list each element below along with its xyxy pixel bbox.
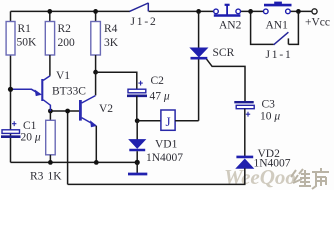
- svg-text:J: J: [166, 114, 171, 129]
- wire top rail left segment: [11, 10, 131, 12]
- wire SCR cathode down to J node: [198, 59, 200, 120]
- pushbutton AN1: [264, 3, 292, 14]
- terminal +Vcc circle: [312, 9, 317, 14]
- unijunction transistor V1: [12, 76, 50, 111]
- node bottom rail dot at V2 emitter: [94, 160, 99, 165]
- node R4 bottom junction dot: [93, 70, 98, 75]
- wire lower rail riser to base node: [67, 111, 69, 184]
- resistor R3: [46, 111, 56, 162]
- node bottom rail dot at VD1: [135, 160, 140, 165]
- wire J1-1 right vertical: [288, 11, 298, 44]
- node top rail dot at J1-1 left: [248, 9, 253, 14]
- node top rail dot at SCR: [196, 9, 201, 14]
- wire SCR anode lead: [198, 11, 200, 48]
- svg-text:50K: 50K: [17, 37, 38, 49]
- wire R2 bottom lead to V1 B2: [49, 55, 51, 76]
- svg-text:10 μ: 10 μ: [260, 111, 280, 123]
- resistor R2: [45, 22, 54, 56]
- ground symbol: [128, 162, 147, 174]
- svg-text:20 μ: 20 μ: [21, 132, 41, 144]
- svg-text:VD1: VD1: [155, 139, 178, 151]
- switch J1-1 right post: [287, 38, 289, 44]
- diode VD2: [236, 157, 253, 168]
- watermark WeeQoo: [224, 165, 296, 189]
- wire R4 bottom lead: [95, 55, 97, 72]
- svg-text:C2: C2: [151, 75, 165, 87]
- svg-text:1N4007: 1N4007: [146, 152, 183, 164]
- switch J1-2 blade: [130, 3, 149, 12]
- wire R2 top lead: [49, 11, 51, 21]
- node bottom rail dot at R3: [48, 160, 53, 165]
- node relay node dot: [135, 118, 140, 123]
- switch J1-1 blade: [274, 32, 289, 45]
- svg-text:J1-1: J1-1: [266, 49, 293, 61]
- svg-text:R3: R3: [30, 171, 44, 183]
- wire bottom rail: [11, 161, 138, 163]
- svg-text:SCR: SCR: [213, 47, 235, 59]
- svg-text:AN1: AN1: [266, 20, 289, 32]
- wire C2 bottom lead: [136, 96, 138, 121]
- wire top rail right segment: [291, 10, 312, 12]
- wire J1-1 left vertical: [251, 11, 274, 44]
- wire top rail between AN2 and AN1: [241, 10, 264, 12]
- node top rail dot at R4: [93, 9, 98, 14]
- diode VD1: [129, 121, 145, 163]
- wire R4 top lead: [95, 11, 97, 21]
- wire R4 node to C2: [96, 72, 137, 89]
- capacitor C1: [1, 121, 21, 136]
- svg-text:R1: R1: [18, 23, 32, 35]
- svg-text:R2: R2: [58, 23, 72, 35]
- wire top rail middle segment: [149, 10, 214, 12]
- svg-text:+Vcc: +Vcc: [305, 17, 330, 29]
- node top rail dot at R2: [47, 9, 52, 14]
- wire relay node to J box: [137, 120, 161, 122]
- wire base node horizontal: [50, 110, 79, 112]
- svg-text:R4: R4: [104, 23, 118, 35]
- svg-text:V1: V1: [56, 70, 70, 82]
- node left rail dot at V1 emitter: [8, 87, 13, 92]
- resistor R4: [91, 22, 101, 56]
- wire V2 collector vertical: [95, 72, 97, 95]
- capacitor C2: [127, 81, 147, 96]
- svg-text:J1-2: J1-2: [131, 16, 158, 28]
- svg-text:V2: V2: [99, 103, 113, 115]
- svg-text:47 μ: 47 μ: [150, 91, 170, 103]
- node base wire dot right: [65, 109, 70, 114]
- capacitor C3: [234, 102, 254, 116]
- wire SCR gate: [207, 59, 245, 101]
- svg-text:C3: C3: [262, 99, 276, 111]
- wire J box to SCR cathode: [175, 120, 199, 122]
- svg-text:BT33C: BT33C: [52, 86, 86, 98]
- svg-text:C1: C1: [23, 120, 37, 132]
- resistor R1: [6, 22, 15, 56]
- wire C3 bottom lead: [244, 109, 246, 157]
- svg-text:200: 200: [58, 37, 76, 49]
- node base wire dot left: [48, 109, 53, 114]
- wire V2 emitter to bottom rail: [95, 126, 97, 163]
- svg-text:3K: 3K: [104, 37, 119, 49]
- transistor V2: [80, 96, 96, 127]
- watermark CJK 维库: [291, 168, 329, 189]
- svg-text:AN2: AN2: [219, 20, 242, 32]
- relay coil J box: [161, 110, 175, 130]
- node top rail dot at J1-1 right: [296, 9, 301, 14]
- svg-text:1N4007: 1N4007: [254, 158, 291, 170]
- wire VD2 anode to lower rail: [68, 168, 245, 184]
- svg-text:1K: 1K: [48, 171, 63, 183]
- wire left rail: [10, 11, 12, 162]
- SCR thyristor: [191, 48, 208, 58]
- pushbutton AN2: [214, 5, 241, 16]
